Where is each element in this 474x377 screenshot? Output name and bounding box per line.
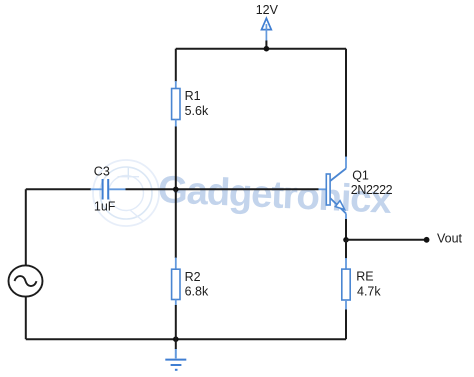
wire junction to ground: [175, 339, 177, 349]
node 12V junction: [264, 46, 270, 52]
svg-text:12V: 12V: [256, 3, 279, 17]
wire R2 bottom lead: [175, 300, 177, 306]
svg-text:C3: C3: [94, 164, 110, 178]
wire top rail: [176, 48, 346, 50]
wire RE top lead: [345, 258, 347, 269]
wire cap right lead: [109, 188, 125, 190]
svg-text:6.8k: 6.8k: [185, 285, 209, 299]
svg-text:Q1: Q1: [352, 169, 369, 183]
wire 12V pin: [265, 41, 267, 49]
wire RE bottom lead: [345, 300, 347, 310]
svg-text:R2: R2: [185, 270, 201, 284]
ground: [165, 348, 186, 370]
wire RE to bottom rail: [345, 310, 347, 340]
resistor R1: [172, 89, 180, 120]
svg-text:4.7k: 4.7k: [357, 285, 381, 299]
svg-text:R1: R1: [185, 89, 201, 103]
wire R1 top lead: [175, 81, 177, 89]
wire input left segment: [26, 188, 91, 190]
wire RE upper: [345, 240, 347, 259]
wire cap to base node: [126, 188, 176, 190]
node vout junction: [343, 237, 349, 243]
wire R1 to base node: [175, 127, 177, 190]
node base junction: [173, 187, 179, 193]
svg-text:2N2222: 2N2222: [351, 183, 393, 197]
capacitor C3: [103, 179, 109, 200]
wire source top: [25, 189, 27, 265]
wire R1 bottom lead: [175, 120, 177, 128]
transistor Q1: [326, 157, 346, 220]
power 12V arrow: [262, 18, 272, 41]
wire base blue lead: [319, 188, 327, 190]
svg-text:5.6k: 5.6k: [185, 104, 209, 118]
resistor RE: [342, 269, 350, 300]
svg-text:RE: RE: [356, 270, 373, 284]
ac source V1: [9, 265, 43, 296]
svg-text:1uF: 1uF: [94, 200, 116, 214]
node vout terminal: [424, 237, 430, 243]
watermark logo circle: [93, 160, 159, 226]
wire emitter to vout node: [345, 219, 347, 240]
wire R2 top lead: [175, 258, 177, 270]
wire R1 branch upper: [175, 49, 177, 82]
node ground junction: [173, 336, 179, 342]
wire collector upper: [345, 49, 347, 157]
wire R2 upper: [175, 189, 177, 258]
resistor R2: [172, 269, 180, 299]
wire bottom rail: [26, 338, 346, 340]
wire base horizontal: [176, 188, 319, 190]
wire source bottom: [25, 297, 27, 340]
svg-text:Vout: Vout: [437, 232, 463, 246]
wire R2 to bottom rail: [175, 305, 177, 339]
wire cap left lead: [91, 188, 102, 190]
wire vout horizontal: [346, 239, 427, 241]
